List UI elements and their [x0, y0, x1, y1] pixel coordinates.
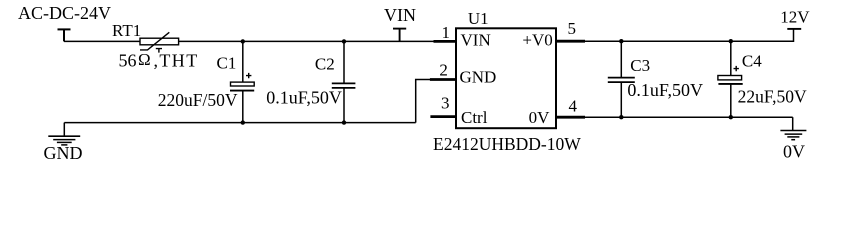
pin 3 — [430, 115, 456, 118]
wire bottom rail (input ground) — [64, 122, 415, 124]
svg-text:22uF,50V: 22uF,50V — [738, 87, 807, 107]
svg-text:5: 5 — [568, 19, 577, 38]
junction C1 bottom — [241, 120, 245, 124]
capacitor C3 — [608, 41, 635, 117]
svg-text:GND: GND — [460, 68, 497, 87]
pin 4 — [556, 116, 585, 119]
wire bottom rail to U1 pin 2 — [416, 80, 431, 123]
capacitor C2 — [332, 41, 356, 122]
terminal 12V — [787, 28, 801, 30]
svg-text:C3: C3 — [630, 56, 650, 75]
junction C1 top — [241, 39, 245, 43]
svg-text:Ω: Ω — [138, 50, 151, 69]
svg-text:0.1uF,50V: 0.1uF,50V — [627, 80, 703, 100]
svg-text:C2: C2 — [315, 55, 335, 74]
terminal VIN — [393, 29, 406, 42]
value 56 ohm THT — [119, 50, 199, 71]
pin 1 — [434, 40, 457, 43]
svg-text:3: 3 — [441, 94, 450, 113]
svg-text:0V: 0V — [529, 108, 551, 127]
svg-text:12V: 12V — [780, 8, 810, 27]
svg-text:1: 1 — [442, 23, 451, 42]
wire U1 pin 4 to 0V ground — [585, 116, 793, 118]
junction C2 top — [342, 39, 346, 43]
pin 5 — [556, 40, 585, 43]
svg-text:2: 2 — [439, 60, 448, 79]
svg-text:220uF/50V: 220uF/50V — [158, 90, 238, 110]
svg-text:Ctrl: Ctrl — [461, 108, 488, 127]
svg-text:,THT: ,THT — [154, 50, 199, 70]
svg-text:0.1uF,50V: 0.1uF,50V — [266, 88, 342, 108]
svg-text:C1: C1 — [217, 54, 237, 73]
svg-text:RT1: RT1 — [112, 21, 141, 40]
wire U1 pin 5 to 12V terminal — [585, 29, 794, 41]
svg-text:4: 4 — [569, 97, 578, 116]
pin 2 — [430, 78, 456, 81]
ground 0V — [780, 117, 806, 140]
capacitor C1 (electrolytic) — [230, 41, 254, 122]
junction C3 top — [619, 39, 623, 43]
junction C2 bottom — [342, 120, 346, 124]
junction C3 bottom — [619, 115, 623, 119]
svg-text:VIN: VIN — [384, 5, 416, 25]
terminal AC-DC input — [58, 29, 71, 41]
svg-text:GND: GND — [44, 143, 83, 163]
svg-text:E2412UHBDD-10W: E2412UHBDD-10W — [433, 134, 581, 154]
wire RT1 to U1 pin 1 rail — [179, 40, 434, 42]
svg-text:AC-DC-24V: AC-DC-24V — [18, 3, 111, 23]
svg-text:0V: 0V — [783, 142, 805, 162]
IC U1 — [456, 28, 556, 128]
svg-text:C4: C4 — [742, 52, 762, 71]
svg-text:U1: U1 — [468, 9, 489, 28]
wire input terminal to RT1 — [64, 40, 141, 42]
ground GND — [48, 123, 80, 145]
svg-text:+V0: +V0 — [522, 31, 552, 50]
svg-text:56: 56 — [119, 50, 137, 70]
junction C4 bottom — [729, 115, 733, 119]
capacitor C4 (electrolytic) — [718, 41, 743, 117]
svg-text:VIN: VIN — [461, 31, 491, 50]
junction C4 top — [729, 39, 733, 43]
resistor RT1 (thermistor) — [140, 32, 179, 52]
